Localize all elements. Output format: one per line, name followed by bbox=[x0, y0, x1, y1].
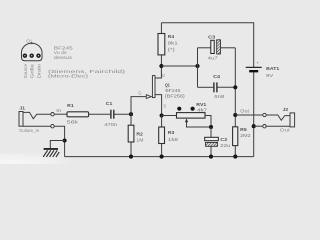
wire R4 to drain node bbox=[160, 55, 162, 66]
svg-text:Grille: Grille bbox=[30, 63, 35, 78]
svg-text:J1: J1 bbox=[20, 106, 26, 112]
svg-text:6n8: 6n8 bbox=[214, 94, 225, 99]
node rail C2 bbox=[209, 155, 213, 159]
wire drain row bbox=[161, 65, 197, 67]
svg-text:C4: C4 bbox=[213, 74, 220, 80]
port In pin circle bbox=[51, 113, 54, 116]
wire Out circle to J2 tip bbox=[266, 115, 290, 120]
wire to ground symbol bbox=[50, 141, 64, 149]
port In sleeve circle bbox=[51, 125, 54, 128]
node out tap junction bbox=[233, 113, 237, 117]
package pin 3 dot bbox=[36, 54, 40, 58]
package pin 2 dot bbox=[30, 54, 34, 58]
svg-text:56k: 56k bbox=[67, 120, 79, 125]
wire In circle to R1 bbox=[54, 113, 67, 115]
RV1 right terminal wire bbox=[205, 116, 211, 128]
ground earth symbol bbox=[44, 148, 58, 150]
node ground branch junction bbox=[63, 138, 67, 142]
svg-text:9V: 9V bbox=[266, 73, 274, 78]
wire C3 to loop right bbox=[221, 47, 236, 49]
svg-text:Out: Out bbox=[240, 109, 250, 114]
wire sleeve to J2 bbox=[266, 125, 290, 127]
node drain junction bbox=[159, 64, 163, 68]
port Out sleeve circle bbox=[263, 125, 266, 128]
svg-text:J2: J2 bbox=[283, 107, 289, 113]
svg-text:+: + bbox=[256, 60, 259, 65]
wire out sleeve row bbox=[254, 125, 263, 127]
wire coupling loop right bbox=[234, 48, 236, 127]
wire battery negative down bbox=[253, 72, 255, 156]
resistor R2 bbox=[130, 114, 132, 125]
port Out pin circle bbox=[263, 113, 266, 116]
Q1 gate arrow bbox=[146, 95, 151, 99]
RV1 wiper arrow bbox=[185, 118, 188, 122]
connector J2 body bbox=[290, 113, 295, 127]
wire gate node up to gate bbox=[131, 97, 146, 115]
node battery/out-sleeve junction bbox=[252, 124, 256, 128]
node rail R2 bbox=[129, 155, 133, 159]
wire source row to RV1 bbox=[162, 115, 177, 117]
capacitor C3 positive plate bbox=[211, 40, 214, 53]
capacitor C1 bbox=[110, 110, 112, 119]
svg-text:C1: C1 bbox=[106, 101, 113, 107]
battery BAT1 bbox=[246, 66, 262, 68]
svg-text:dessus: dessus bbox=[54, 55, 73, 60]
wire coupling loop left bbox=[197, 48, 199, 88]
wire C4 to loop right bbox=[218, 86, 236, 88]
svg-text:4k7: 4k7 bbox=[197, 107, 208, 112]
svg-text:R1: R1 bbox=[67, 103, 74, 109]
wire sleeve to ground branch bbox=[54, 126, 64, 156]
svg-text:Out: Out bbox=[280, 128, 291, 133]
node C4 junction bbox=[233, 85, 237, 89]
potentiometer RV1 body bbox=[177, 113, 206, 119]
power rail top bbox=[161, 23, 253, 67]
svg-text:In: In bbox=[56, 108, 62, 113]
svg-text:BAT1: BAT1 bbox=[266, 66, 279, 72]
node rail R5 bbox=[233, 155, 237, 159]
svg-text:R4: R4 bbox=[168, 34, 175, 40]
svg-text:G: G bbox=[138, 90, 141, 95]
wire to C2 bbox=[210, 127, 212, 137]
wire out row bbox=[235, 114, 262, 116]
wire C1 to gate node bbox=[115, 113, 132, 115]
svg-text:Guitare_In: Guitare_In bbox=[19, 128, 39, 133]
svg-text:Source: Source bbox=[23, 64, 28, 79]
node source junction bbox=[160, 113, 164, 117]
svg-text:C3: C3 bbox=[208, 34, 215, 40]
connector J1 body bbox=[19, 112, 23, 127]
node rail R3 bbox=[160, 155, 164, 159]
capacitor C2 negative plate (hatched) bbox=[206, 142, 218, 146]
capacitor C2 positive plate bbox=[205, 137, 219, 140]
capacitor C3 negative plate (hatched) bbox=[217, 40, 221, 54]
wire C3 top branch bbox=[198, 47, 211, 49]
resistor R3 bbox=[161, 116, 163, 128]
resistor R1 bbox=[67, 112, 89, 117]
resistor R4 bbox=[158, 34, 165, 55]
svg-text:(BF256): (BF256) bbox=[165, 94, 186, 99]
J1 tip contact wire bbox=[23, 112, 51, 118]
node wiper junction bbox=[209, 125, 213, 129]
svg-text:S: S bbox=[163, 103, 166, 108]
resistor R5 bbox=[233, 127, 238, 146]
node loop left junction bbox=[195, 64, 199, 68]
svg-text:2M2: 2M2 bbox=[240, 133, 251, 138]
svg-text:4u7: 4u7 bbox=[208, 55, 219, 60]
svg-text:R3: R3 bbox=[168, 130, 175, 136]
svg-text:BF245: BF245 bbox=[165, 88, 180, 93]
svg-text:1k8: 1k8 bbox=[168, 137, 179, 142]
svg-text:D: D bbox=[162, 73, 165, 78]
capacitor C4 bbox=[213, 82, 215, 92]
J1 sleeve wire bbox=[23, 125, 51, 127]
svg-text:470n: 470n bbox=[104, 122, 118, 127]
ground rail bottom bbox=[65, 156, 254, 158]
wire rail to R4 bbox=[160, 23, 162, 34]
RV1 terminal dot left bbox=[177, 107, 181, 111]
svg-text:22u: 22u bbox=[220, 143, 231, 148]
svg-text:1M: 1M bbox=[136, 137, 143, 142]
package pin 1 dot bbox=[23, 54, 27, 58]
transistor package TO-92 outline bbox=[22, 43, 43, 60]
Q1 source lead bbox=[155, 95, 162, 116]
svg-text:(Micro-Elec): (Micro-Elec) bbox=[48, 74, 89, 79]
RV1 terminal dot right bbox=[191, 107, 195, 111]
Q1 drain lead bbox=[155, 66, 161, 78]
transistor Q1 channel bbox=[152, 76, 155, 98]
node gate junction bbox=[129, 112, 133, 116]
svg-text:9k1: 9k1 bbox=[168, 41, 179, 46]
wire C4 row bbox=[198, 86, 214, 88]
svg-text:(*): (*) bbox=[168, 47, 176, 52]
svg-text:Drain: Drain bbox=[36, 63, 41, 78]
wire R1 to C1 bbox=[89, 113, 111, 115]
wire C2 to rail bbox=[210, 146, 212, 156]
